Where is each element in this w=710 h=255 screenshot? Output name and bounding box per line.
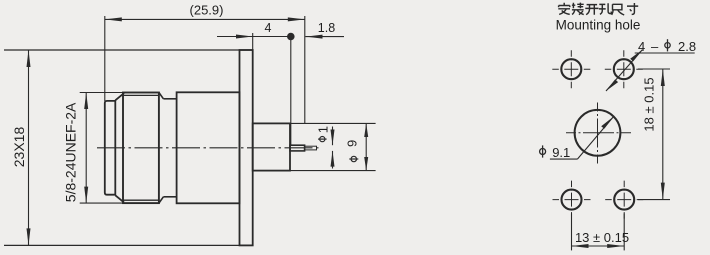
svg-text:(25.9): (25.9) — [190, 3, 224, 18]
knurl relief line bottom — [123, 199, 159, 201]
hole bottom-left — [562, 190, 582, 210]
dimension phi1 upper segment — [332, 127, 334, 146]
rear insulator block — [253, 123, 290, 170]
leader phi9.1 underline — [550, 158, 578, 160]
leader 4-phi2.8 arrow upper — [630, 50, 642, 62]
coupling nut front ring — [105, 101, 116, 195]
extension line 18 bottom — [638, 199, 670, 201]
vertical line from dot to pin — [290, 37, 292, 146]
nut rear chamfer top — [159, 93, 164, 99]
svg-text:Mounting hole: Mounting hole — [556, 18, 641, 33]
phi symbol of 4-phi2.8 — [665, 39, 670, 51]
arrow 23X18 bottom — [27, 228, 31, 245]
arrow (25.9) left — [105, 17, 122, 21]
char Cun — [627, 3, 638, 14]
phi symbol of phi1 — [318, 137, 327, 142]
phi symbol of phi9 — [349, 156, 358, 161]
dimension line 1.8 with tail — [305, 36, 344, 38]
dimension line phi9 — [365, 123, 367, 170]
knurled nut body — [123, 93, 159, 204]
extension line 5/8 thread bottom — [80, 202, 124, 204]
crosshair center hole horizontal — [566, 132, 631, 134]
contact pin base — [290, 145, 305, 151]
arrow phi9 up — [364, 123, 368, 137]
extension line 4 (flange right face) — [252, 33, 254, 50]
char Kong — [599, 3, 611, 14]
dimension line 4 with tail — [217, 36, 291, 38]
crosshair center hole vertical — [597, 103, 599, 164]
leader phi9.1 arrow — [601, 117, 613, 129]
arrow phi1 down — [331, 130, 335, 146]
svg-text:13 ± 0.15: 13 ± 0.15 — [575, 230, 629, 245]
origin dot of 4/1.8 dims — [287, 33, 295, 41]
nut chamfer bottom — [115, 195, 124, 202]
block extension line bottom (phi9) — [290, 170, 376, 172]
leader 4-phi2.8 underline — [635, 52, 695, 54]
svg-text:1: 1 — [315, 126, 330, 133]
svg-text:23X18: 23X18 — [11, 127, 27, 168]
flange — [240, 50, 253, 245]
crosshair bottom-right hole — [605, 199, 643, 201]
arrow 18 down — [661, 183, 665, 200]
extension line 13 right — [623, 214, 625, 251]
char An — [558, 3, 570, 15]
arrow 18 up — [661, 69, 665, 86]
crosshair top-left hole — [552, 68, 590, 70]
svg-text:2.8: 2.8 — [678, 39, 696, 54]
char Chi — [612, 4, 625, 15]
block extension line top (phi9) — [290, 122, 376, 124]
contact pin tip — [305, 146, 317, 150]
arrow phi9 down — [364, 157, 368, 171]
hole top-left — [561, 59, 581, 79]
arrow 5/8 top — [84, 93, 88, 110]
hole top-right — [614, 59, 634, 79]
connector body — [177, 92, 240, 203]
crosshair bottom-left hole — [553, 199, 591, 201]
extension line 13 left — [571, 214, 573, 251]
extension line (25.9) left — [104, 16, 106, 101]
svg-text:9.1: 9.1 — [552, 145, 570, 160]
phi symbol of phi9.1 — [540, 145, 546, 157]
arrow 23X18 top — [27, 50, 31, 67]
svg-text:4: 4 — [638, 39, 645, 54]
nut chamfer top — [115, 93, 124, 100]
char Kai — [585, 5, 598, 15]
dimension line 18 — [662, 69, 664, 200]
leader phi9.1 diagonal — [577, 117, 613, 160]
svg-text:4: 4 — [265, 21, 272, 35]
groove top — [163, 98, 176, 100]
arrow 4 pointing right — [236, 35, 253, 39]
extension line bottom (23X18 bottom / flange bottom) — [4, 244, 254, 246]
svg-text:5/8-24UNEF-2A: 5/8-24UNEF-2A — [63, 102, 79, 202]
extension line top (23X18 top / flange top) — [4, 49, 254, 51]
dimension line (25.9) — [105, 18, 305, 20]
svg-text:–: – — [651, 39, 659, 54]
extension line 18 top — [638, 68, 670, 70]
dimension line 13 — [572, 245, 625, 247]
knurl relief line top — [123, 94, 159, 96]
dimension phi1 lower segment — [332, 151, 334, 169]
groove bottom — [163, 196, 176, 198]
title Chinese (drawn strokes: 安装开孔尺寸) — [558, 3, 638, 15]
svg-text:1.8: 1.8 — [318, 21, 335, 35]
svg-text:18 ± 0.15: 18 ± 0.15 — [642, 77, 657, 131]
svg-text:9: 9 — [345, 140, 360, 147]
char Zhuang — [572, 3, 584, 15]
extension line 5/8 thread top — [80, 92, 124, 94]
arrow (25.9) right — [288, 17, 305, 21]
arrow 5/8 bottom — [84, 187, 88, 204]
extension line (25.9)/1.8 right — [304, 16, 306, 123]
arrow 1.8 pointing left — [306, 35, 323, 39]
centerline of connector — [97, 147, 322, 149]
dimension line 23X18 — [28, 50, 30, 245]
nut rear chamfer bottom — [159, 197, 164, 203]
leader 4-phi2.8 diagonal — [606, 50, 642, 91]
arrow phi1 up — [331, 151, 335, 167]
arrow 13 right — [607, 244, 624, 248]
arrow 13 left — [572, 244, 589, 248]
hole bottom-right — [614, 190, 634, 210]
center hole phi 9.1 — [575, 110, 621, 156]
dimension line 5/8-24UNEF-2A — [85, 93, 87, 204]
leader 4-phi2.8 arrow lower — [606, 79, 618, 91]
crosshair top-right hole — [605, 68, 643, 70]
